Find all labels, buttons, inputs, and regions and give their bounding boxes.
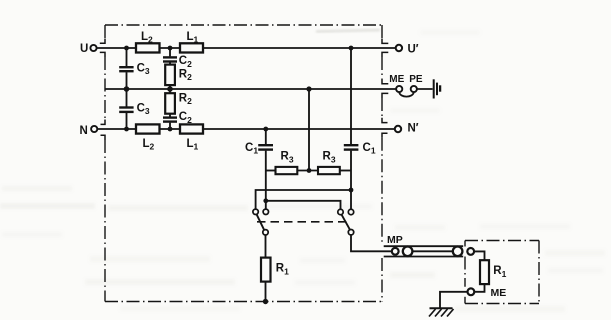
node N/C3 — [124, 127, 129, 132]
wire MP cable shield top — [384, 245, 464, 247]
switch S1 (left pole) arm — [257, 215, 265, 231]
switch S1 fixed contact b — [263, 209, 268, 214]
node R1/case — [263, 299, 268, 304]
node R3/R3 junction — [307, 168, 312, 173]
node mid/R2 — [167, 86, 173, 92]
inductor L2 (lower) — [136, 124, 160, 133]
wire MP cable shield bottom — [384, 256, 464, 258]
switch S1 moving contact — [263, 230, 268, 235]
svg-text:ME: ME — [389, 74, 404, 85]
MP cable plug (big, right) — [453, 247, 463, 257]
svg-text:U: U — [80, 43, 88, 55]
node mid/C3 — [124, 86, 130, 92]
earth symbol at PE — [434, 79, 440, 98]
measuring-device box (bottom right) dash-dot border — [465, 241, 539, 304]
capacitor C3 (lower) — [119, 108, 133, 112]
terminal N' — [395, 126, 401, 132]
node C1L tap — [263, 198, 268, 203]
measuring box input terminal — [467, 248, 474, 255]
wire measuring box: terminal to R1 — [474, 251, 484, 260]
switch S2 (right pole) arm — [342, 215, 350, 230]
svg-text:PE: PE — [409, 74, 423, 85]
terminal ME — [396, 86, 402, 92]
resistor R1 (in measuring box) — [480, 260, 489, 284]
wire R3 rail — [266, 170, 276, 172]
wire left switch to R1 — [265, 235, 267, 258]
node U/C1 — [349, 46, 354, 51]
resistor R2 (upper) — [165, 65, 175, 86]
node N/C1 — [263, 127, 268, 132]
ME-PE removable link — [399, 92, 414, 97]
wire N line — [97, 128, 136, 130]
svg-text:ME: ME — [491, 287, 507, 299]
svg-text:N′: N′ — [408, 123, 419, 135]
node U/C2 — [168, 46, 173, 51]
wire C1 left column (from N line) — [265, 129, 267, 144]
inductor L1 (lower) — [180, 124, 203, 133]
wire right switch to MP port — [351, 235, 392, 251]
terminal U — [90, 45, 96, 51]
inductor L2 (upper) — [136, 43, 160, 52]
node C1R tap — [349, 188, 354, 193]
wire C2/R2 column — [169, 48, 171, 56]
resistor R3 (left) — [276, 167, 298, 174]
svg-text:N: N — [80, 125, 88, 137]
terminal N — [91, 126, 97, 132]
wire PE to earth symbol — [417, 88, 433, 90]
chassis ground symbol (bottom right) — [429, 308, 454, 316]
inductor L1 (upper) — [180, 43, 203, 52]
MP cable plug (big, left) — [403, 247, 413, 257]
capacitor C1 (left) — [258, 145, 273, 149]
capacitor C1 (right) — [344, 145, 359, 149]
wire C1 right column (from U line) — [350, 48, 352, 144]
border top edge — [105, 24, 382, 26]
border right edge segments — [381, 25, 383, 39]
node U/C3 — [124, 46, 129, 51]
terminal PE — [411, 86, 417, 92]
resistor R1 (in filter) — [261, 258, 271, 282]
border left edge segments — [104, 25, 106, 39]
switch S2 moving contact — [348, 230, 353, 235]
switch S2 fixed contact a — [338, 209, 343, 214]
enclosure box (filter case) dash-dot border — [105, 25, 382, 302]
measuring box ME terminal — [468, 288, 475, 295]
resistor R2 (lower) — [165, 93, 175, 114]
wire U line — [97, 47, 137, 49]
resistor R3 (right) — [318, 167, 340, 174]
capacitor C2 (lower) — [163, 118, 177, 122]
capacitor C3 (upper) — [119, 67, 133, 71]
switch S1 fixed contact a — [253, 209, 258, 214]
wire mid tap column (from middle line to R3 junction) — [308, 89, 310, 171]
wire rail to left switch left contact — [256, 190, 351, 209]
wire C3 column — [126, 48, 128, 66]
border ticks at terminal gaps — [100, 39, 389, 141]
wire middle (ground) line — [105, 88, 396, 90]
border bottom edge — [105, 301, 382, 303]
wire MP cable centre conductor — [412, 250, 452, 252]
svg-text:MP: MP — [387, 234, 403, 246]
terminal U' — [396, 45, 402, 51]
switch S2 fixed contact b — [348, 209, 353, 214]
capacitor C2 (upper) — [163, 57, 177, 61]
wire ME terminal to ground — [440, 292, 468, 309]
node N/C2 — [168, 127, 173, 132]
MP port connector (small, left) — [392, 248, 399, 255]
svg-text:U′: U′ — [408, 43, 419, 55]
node mid tap — [306, 86, 311, 91]
faint scan artifact line top right — [316, 30, 380, 32]
wire measuring box: R1 bottom to ME terminal — [474, 284, 484, 292]
wire rail to right switch left contact — [266, 201, 341, 210]
switch mechanical coupling (dashed) — [257, 221, 349, 223]
